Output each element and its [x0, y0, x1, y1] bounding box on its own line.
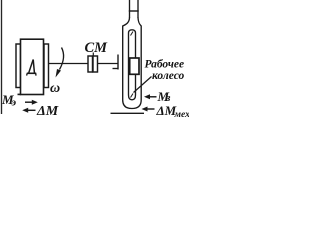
svg-text:ΔМ: ΔМ — [156, 103, 177, 118]
svg-text:ω: ω — [50, 81, 60, 96]
svg-text:Рабочее: Рабочее — [145, 59, 185, 71]
svg-text:колесо: колесо — [152, 70, 185, 82]
svg-text:ΔМ: ΔМ — [36, 104, 59, 119]
svg-text:э: э — [11, 97, 17, 109]
svg-text:мех: мех — [174, 110, 190, 120]
svg-text:СМ: СМ — [85, 40, 109, 56]
